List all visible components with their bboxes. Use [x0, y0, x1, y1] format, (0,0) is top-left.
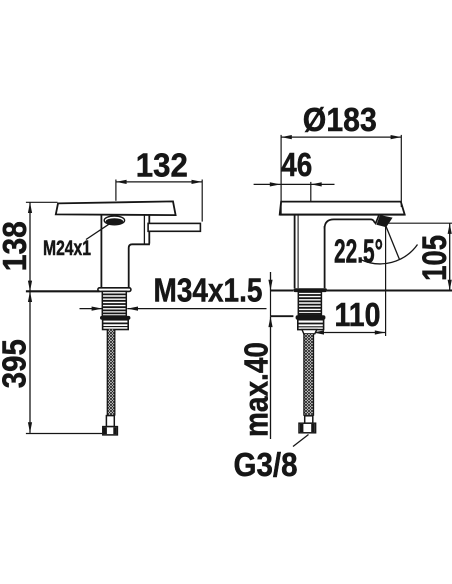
dim D183 extension left	[280, 135, 282, 215]
dim M34 left arrow	[80, 307, 103, 311]
svg-text:Ø183: Ø183	[303, 101, 377, 138]
base flange	[98, 288, 131, 292]
threaded shank M34	[102, 291, 126, 316]
svg-text:132: 132	[136, 146, 188, 183]
hose end nut G3/8	[103, 427, 118, 435]
dim 138 line	[28, 202, 32, 291]
body step to narrow column	[129, 244, 150, 287]
spout plate (front view)	[280, 202, 405, 215]
aerator fill	[106, 218, 123, 224]
washer	[100, 316, 130, 320]
angle arc	[361, 245, 418, 264]
dim 46 extension right	[310, 182, 312, 202]
extension line spout tip vertical	[385, 226, 387, 336]
plate bottom edge thick	[280, 214, 405, 216]
svg-text:M34x1.5: M34x1.5	[154, 272, 263, 309]
angle leader 22.5deg with arrowhead	[376, 215, 399, 260]
svg-text:22.5°: 22.5°	[334, 233, 383, 270]
leader M24x1	[86, 223, 111, 240]
svg-text:G3/8: G3/8	[234, 446, 298, 483]
dim 110 line	[313, 330, 385, 334]
hose collar right view	[305, 416, 313, 423]
svg-text:M24x1: M24x1	[43, 237, 91, 260]
deck line left view	[26, 290, 100, 292]
threaded shank right view	[298, 292, 321, 315]
svg-text:395: 395	[0, 339, 32, 388]
flexible hose right view	[304, 334, 314, 416]
spout housing outline	[325, 215, 379, 229]
hose collar	[106, 416, 114, 427]
mounting nut right view	[298, 320, 324, 330]
dim 132 extension left	[115, 180, 117, 201]
leader G3/8	[293, 435, 309, 447]
dim max.40 line with outside arrows	[268, 272, 272, 439]
dim M34 right line	[127, 307, 266, 311]
svg-text:110: 110	[335, 296, 381, 333]
hose end nut right view	[299, 423, 316, 433]
svg-text:46: 46	[281, 146, 312, 183]
column right edge	[324, 226, 326, 288]
washer right view	[296, 315, 326, 319]
body detail line	[143, 216, 145, 244]
svg-text:105: 105	[416, 235, 452, 281]
svg-text:138: 138	[0, 221, 33, 271]
flange right view	[293, 288, 327, 292]
dim D183 extension right	[400, 135, 402, 207]
dim 132 line	[116, 180, 202, 184]
deck line right view top	[270, 290, 452, 292]
faucet body left edge	[100, 214, 102, 287]
dim 105 line	[448, 223, 452, 290]
lever (side view)	[148, 223, 200, 231]
spout plate (side view)	[56, 201, 176, 215]
flexible hose (braided)	[107, 330, 115, 416]
dim D183 line	[281, 135, 401, 139]
svg-text:max.40: max.40	[237, 342, 274, 437]
mounting nut	[103, 320, 129, 330]
dim 395 extension bottom	[26, 433, 102, 435]
column detail line	[297, 215, 299, 289]
dim 395 line	[28, 291, 32, 433]
aerator outline	[104, 216, 124, 225]
extension line spout tip horizontal	[383, 222, 452, 224]
dim 138 extension top	[26, 201, 58, 203]
dim 46 line with outside arrows	[254, 182, 335, 186]
column left edge	[294, 215, 296, 289]
deck line right view bottom	[270, 315, 293, 317]
dim 132 extension right	[201, 180, 203, 222]
faucet body right upper edge	[148, 214, 150, 243]
hose crimp sleeve right view	[302, 330, 317, 334]
